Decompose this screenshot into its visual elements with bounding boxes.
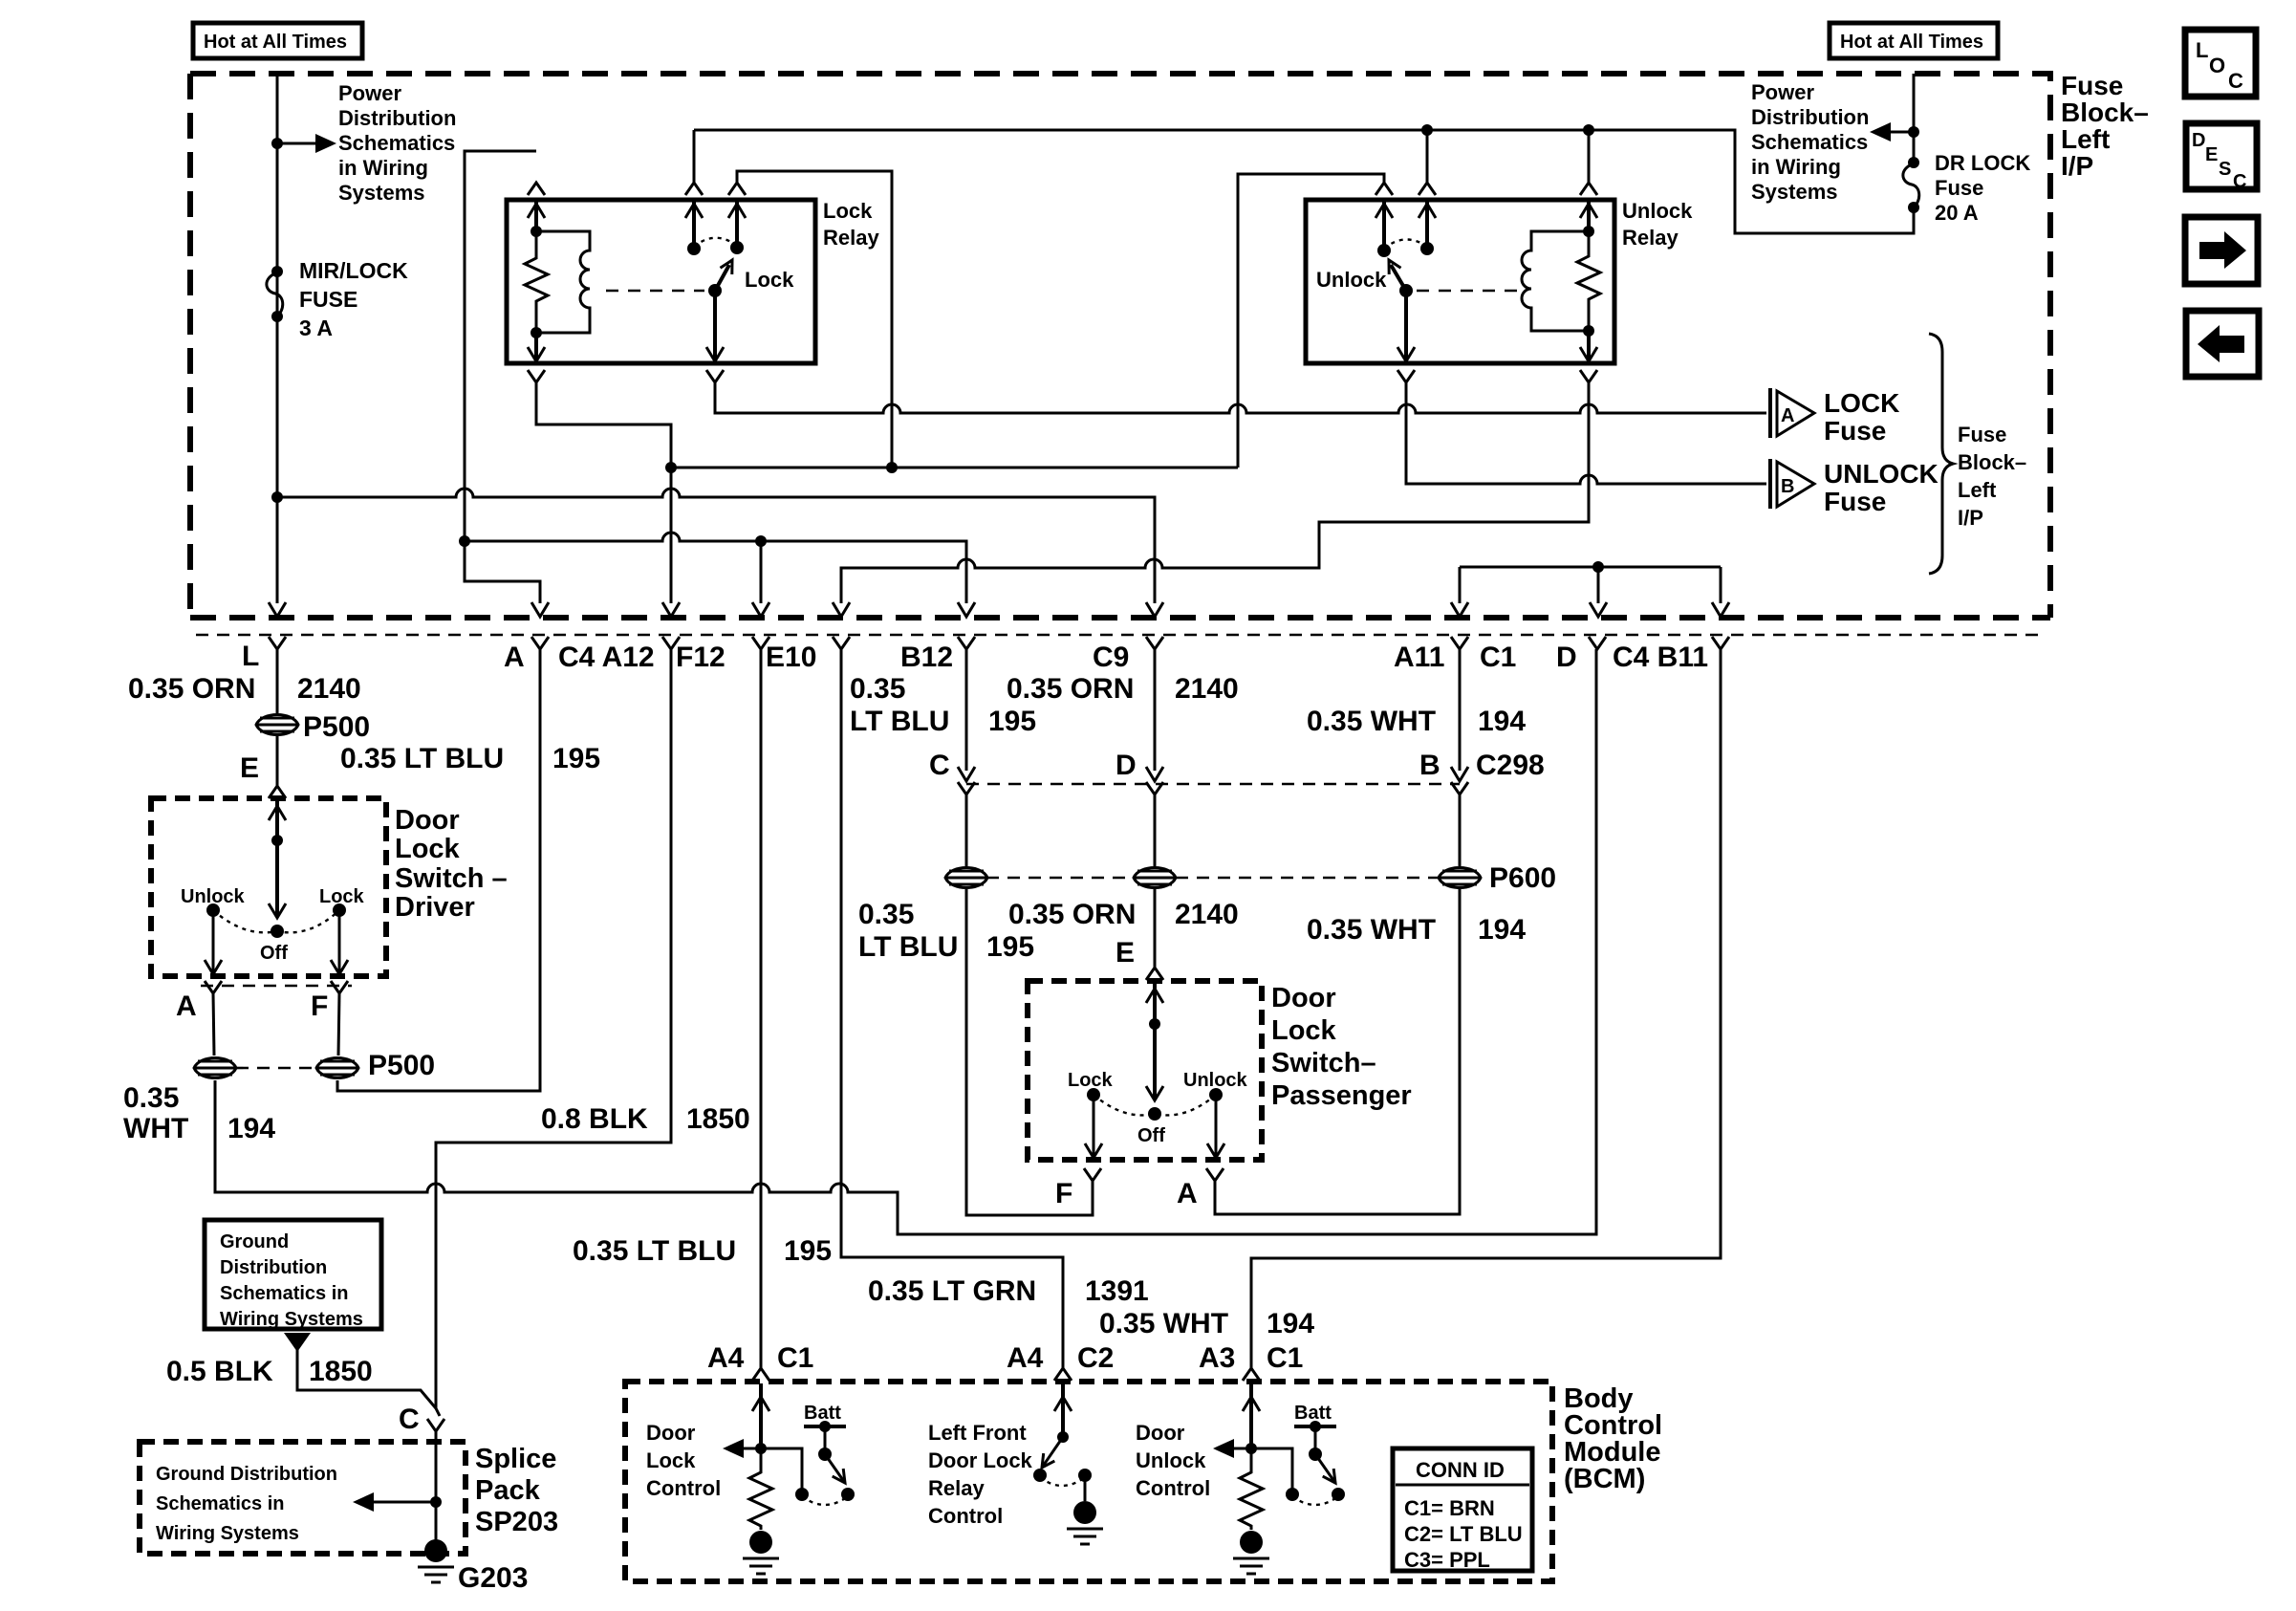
pin A11/C1 fork [1451, 637, 1468, 649]
svg-text:E: E [2205, 144, 2218, 165]
pin fork: driver switch E [269, 786, 286, 798]
switch (relay control) [1057, 1431, 1069, 1443]
wire: 0.5 BLK 1850 to splice [297, 1350, 436, 1408]
svg-text:C1: C1 [1267, 1342, 1303, 1374]
svg-text:Door: Door [395, 805, 460, 836]
svg-text:Wiring Systems: Wiring Systems [220, 1309, 363, 1330]
pin fork: unlock coil top [1580, 183, 1597, 195]
svg-text:G203: G203 [458, 1562, 528, 1594]
pin fork: unlock switch left contact [1375, 183, 1393, 195]
svg-text:Unlock: Unlock [1136, 1448, 1206, 1472]
unlock relay coil output arrow [1587, 331, 1591, 361]
wire: ORN 2140 to passenger switch E [1154, 649, 1157, 771]
wire: P600 to passenger switch E [1154, 889, 1157, 968]
pin C4 B11 fork [1712, 637, 1729, 649]
pin D fork [1589, 637, 1606, 649]
svg-text:Schematics in: Schematics in [156, 1493, 285, 1514]
svg-text:Distribution: Distribution [338, 106, 456, 130]
svg-text:WHT: WHT [123, 1113, 188, 1144]
dotted arc through switch positions (passenger) [1094, 1095, 1216, 1115]
ground (door unlock control) [1233, 1531, 1269, 1574]
pin fork: passenger lock feed (B12/C9 zone) [958, 637, 975, 649]
passenger switch Lock contact [1087, 1088, 1100, 1101]
Batt switch (door unlock control) [1251, 1448, 1292, 1489]
svg-text:Door: Door [1271, 983, 1336, 1013]
svg-text:Schematics: Schematics [1751, 130, 1868, 154]
svg-text:DR LOCK: DR LOCK [1935, 151, 2030, 175]
wire: drop to pin F12 [760, 541, 763, 603]
svg-text:Lock: Lock [823, 199, 873, 223]
wire: P600 to passenger A corner [1215, 889, 1460, 1214]
svg-text:Power: Power [338, 81, 401, 105]
svg-text:C2: C2 [1077, 1342, 1114, 1374]
pin fork: lock relay switch output [706, 370, 724, 382]
unlock relay switch left contact [1382, 200, 1386, 250]
passenger switch Off contact [1148, 1107, 1161, 1121]
svg-text:C3= PPL: C3= PPL [1404, 1548, 1490, 1572]
wire: main feed from Hot at All Times (left), 0.35 ORN [276, 74, 279, 603]
door unlock control (inside BCM) [1249, 1383, 1253, 1448]
connector C298 dashed line [966, 783, 1460, 786]
pin A fork (passenger) [1206, 1168, 1224, 1181]
svg-text:Wiring Systems: Wiring Systems [156, 1523, 299, 1544]
passenger switch common arm [1153, 984, 1157, 1024]
BCM dashed box [625, 1382, 1552, 1581]
svg-text:Left: Left [2061, 124, 2110, 154]
svg-text:S: S [2219, 159, 2231, 180]
svg-text:0.35 LT BLU: 0.35 LT BLU [573, 1235, 736, 1267]
fuse block dashed border [190, 74, 2050, 618]
wire: pin F12 ground 0.8 BLK [436, 649, 671, 1416]
svg-text:195: 195 [988, 706, 1036, 737]
arrow into fuse block bottom border at pin L [269, 602, 286, 617]
svg-text:Off: Off [1137, 1125, 1165, 1146]
pin F fork (passenger) [1084, 1168, 1101, 1181]
junction node on main feed [271, 138, 283, 149]
pin B12 fork [833, 637, 850, 649]
pin A fork [531, 637, 549, 649]
switch arm with arrow (door unlock control) [1315, 1454, 1335, 1483]
svg-text:Hot at All Times: Hot at All Times [1840, 32, 1983, 53]
svg-text:Relay: Relay [823, 226, 879, 250]
DESC box [2186, 123, 2257, 189]
wire: ground net Y0 [671, 467, 1238, 469]
arrow: door lock control [738, 1448, 761, 1450]
coil (unlock relay) [1522, 231, 1589, 331]
wire: ORN 2140 bus Y1 to pin C9 with hops [277, 489, 1155, 603]
svg-text:Left: Left [1958, 478, 1997, 502]
svg-text:0.35 WHT: 0.35 WHT [1307, 914, 1436, 946]
ground G203 [418, 1539, 454, 1582]
svg-text:A: A [1177, 1178, 1198, 1209]
lock relay coil output arrow [534, 333, 538, 361]
svg-text:Unlock: Unlock [181, 886, 246, 907]
svg-text:A3: A3 [1199, 1342, 1235, 1374]
passenger lock output arrow [1093, 1095, 1095, 1158]
svg-text:0.35 ORN: 0.35 ORN [128, 673, 255, 705]
pin fork: lock relay switch left contact [685, 183, 703, 195]
svg-text:3 A: 3 A [299, 316, 333, 340]
driver switch Off contact [271, 925, 284, 938]
svg-text:Switch–: Switch– [1271, 1048, 1376, 1078]
svg-text:C: C [2233, 171, 2246, 192]
pin C9 fork [1146, 637, 1163, 649]
svg-text:I/P: I/P [1958, 506, 1983, 530]
driver switch Lock contact [333, 903, 346, 917]
svg-text:C9: C9 [1093, 642, 1129, 673]
svg-text:0.35 LT GRN: 0.35 LT GRN [868, 1275, 1036, 1307]
svg-text:1391: 1391 [1085, 1275, 1149, 1307]
wire: P500 to driver switch pin E [276, 736, 279, 786]
svg-text:Power: Power [1751, 80, 1814, 104]
wire: unlock coil control to pin E10 (relay control) with hops [841, 382, 1589, 603]
wire: C298 C to P600 [965, 795, 968, 866]
junction node: unlock relay right contact feed [1421, 124, 1433, 136]
lock relay switch right contact [735, 200, 739, 248]
svg-text:A11: A11 [1394, 642, 1444, 673]
LOC box [2185, 30, 2256, 97]
svg-text:B: B [1419, 750, 1440, 781]
resistor (door lock control) [749, 1448, 772, 1530]
wire: DR LOCK fused feed line to relay switch contacts [694, 130, 1914, 233]
svg-text:C: C [399, 1404, 420, 1435]
svg-text:C1= BRN: C1= BRN [1404, 1496, 1495, 1520]
P600 dashed line [986, 877, 1134, 880]
svg-text:CONN ID: CONN ID [1416, 1458, 1505, 1482]
lock relay movable arm [708, 284, 722, 297]
unlock relay movable arm [1399, 284, 1413, 297]
svg-text:P500: P500 [368, 1050, 435, 1081]
resistor (door unlock control) [1240, 1448, 1263, 1530]
svg-text:Off: Off [260, 943, 288, 964]
pin A fork (driver) [205, 981, 222, 993]
svg-text:L: L [242, 641, 259, 672]
svg-text:Fuse: Fuse [2061, 71, 2123, 100]
svg-text:Relay: Relay [1622, 226, 1679, 250]
wire: lock relay coil return to ground pin F12 [536, 382, 671, 603]
svg-text:in Wiring: in Wiring [1751, 155, 1841, 179]
wire: C298 D to P600 [1154, 795, 1157, 866]
inline connector P600 (right) [1439, 868, 1481, 888]
svg-text:in Wiring: in Wiring [338, 156, 428, 180]
Hot at All Times box (right) [1830, 23, 1998, 58]
svg-text:0.35 ORN: 0.35 ORN [1008, 899, 1136, 930]
svg-text:0.35 WHT: 0.35 WHT [1307, 706, 1436, 737]
junction node: unlock relay coil feed [1583, 124, 1594, 136]
wire: unlock relay right contact riser [1426, 130, 1429, 183]
dotted arc through switch positions (driver) [213, 910, 339, 932]
svg-text:Distribution: Distribution [220, 1257, 327, 1278]
svg-text:C: C [2228, 69, 2243, 93]
lock relay coil branch: feed arrow [534, 200, 538, 231]
door lock control driver (inside BCM) [759, 1383, 763, 1448]
svg-text:FUSE: FUSE [299, 287, 357, 312]
svg-text:C298: C298 [1476, 750, 1545, 781]
svg-text:0.35: 0.35 [858, 899, 914, 930]
driver lock output arrow [338, 910, 341, 974]
resistor (unlock relay) [1577, 231, 1600, 331]
svg-text:Switch –: Switch – [395, 863, 508, 894]
svg-text:LT BLU: LT BLU [858, 931, 958, 963]
junction node: pin F12 drop from lock bus [755, 535, 767, 547]
svg-text:C4 A12: C4 A12 [558, 642, 655, 673]
wire: C298 B to P600 [1459, 795, 1462, 866]
splice pack dashed box [140, 1442, 466, 1554]
svg-text:Block–: Block– [2061, 98, 2149, 127]
inline connector P500 pair [194, 1058, 236, 1078]
pin fork: unlock switch right contact [1419, 183, 1436, 195]
coil (lock relay) [536, 231, 590, 333]
svg-text:D: D [1556, 642, 1577, 673]
svg-text:Left Front: Left Front [928, 1421, 1027, 1445]
svg-text:Door: Door [646, 1421, 696, 1445]
svg-text:Distribution: Distribution [1751, 105, 1869, 129]
svg-text:1850: 1850 [309, 1356, 373, 1387]
wire: pin E10 to BCM A4/C1 [760, 649, 763, 1368]
svg-text:0.35 WHT: 0.35 WHT [1099, 1308, 1228, 1339]
svg-text:A: A [176, 991, 197, 1022]
svg-text:D: D [2192, 130, 2205, 151]
svg-text:Lock: Lock [745, 268, 794, 292]
wire: pin L to P500 [276, 649, 279, 713]
passenger switch dashed box [1028, 981, 1262, 1160]
wire: arrow stub to Power Distribution Schematics (left) [277, 142, 321, 145]
svg-text:Unlock: Unlock [1183, 1070, 1248, 1091]
svg-text:Door Lock: Door Lock [928, 1448, 1033, 1472]
svg-text:2140: 2140 [297, 673, 361, 705]
resistor (lock relay) [525, 231, 548, 333]
svg-text:Lock: Lock [395, 834, 461, 864]
svg-text:Control: Control [646, 1476, 721, 1500]
svg-text:Ground: Ground [220, 1231, 289, 1252]
svg-text:O: O [2209, 54, 2225, 77]
wire: P600 to passenger F corner [966, 889, 1093, 1215]
svg-text:195: 195 [552, 743, 600, 774]
arrow: door unlock control [1228, 1448, 1251, 1450]
svg-text:Lock: Lock [646, 1448, 696, 1472]
svg-text:0.5 BLK: 0.5 BLK [166, 1356, 273, 1387]
fuse: DR LOCK Fuse 20 A [1908, 157, 1919, 168]
pin fork: passenger switch E [1146, 968, 1163, 980]
junction node: ORN bus tap [271, 491, 283, 503]
fuse block bottom connector dashed line [196, 634, 2046, 637]
arrow from ground distribution box [284, 1333, 311, 1352]
svg-text:E: E [1116, 937, 1135, 969]
ground (door lock control) [743, 1531, 779, 1574]
wire: lock relay coil feed riser (to pin A C4 A12) [465, 151, 540, 603]
pin fork: unlock coil bottom [1580, 370, 1597, 382]
driver unlock output arrow [212, 910, 215, 974]
svg-text:F12: F12 [676, 642, 726, 673]
pin fork: lock relay switch right contact [728, 183, 746, 195]
pin fork: unlock switch output [1397, 370, 1415, 382]
svg-text:0.8 BLK: 0.8 BLK [541, 1103, 648, 1135]
passenger switch Unlock contact [1209, 1088, 1223, 1101]
left front door lock relay control (inside BCM) [1061, 1383, 1065, 1434]
svg-text:0.35 LT BLU: 0.35 LT BLU [340, 743, 504, 774]
wire: unlock relay coil riser [1588, 130, 1591, 183]
wire: riser to lock relay left contact [693, 130, 696, 183]
svg-text:A4: A4 [707, 1342, 745, 1374]
lock relay switch output arrow [713, 291, 717, 361]
svg-text:Fuse: Fuse [1958, 423, 2006, 446]
svg-text:L: L [2196, 38, 2208, 62]
svg-text:20 A: 20 A [1935, 201, 1979, 225]
wire: unlock relay left contact feed from ground net [1238, 174, 1384, 468]
svg-text:Schematics: Schematics [338, 131, 455, 155]
unlock relay box [1306, 200, 1614, 363]
driver switch common arm [275, 801, 279, 840]
svg-text:A: A [1781, 405, 1794, 426]
svg-text:Control: Control [1136, 1476, 1210, 1500]
svg-text:B: B [1781, 476, 1794, 497]
svg-text:Lock: Lock [319, 886, 365, 907]
pin L fork [269, 637, 286, 649]
driver switch bottom connector dashed line [201, 985, 352, 988]
svg-text:Fuse: Fuse [1824, 416, 1886, 446]
svg-text:Driver: Driver [395, 892, 475, 923]
wire: driver lock output to fuse block pin A (LT BLU 195) [337, 649, 540, 1091]
inline connector P600 (left) [945, 868, 987, 888]
svg-text:195: 195 [986, 931, 1034, 963]
pin fork: lock relay coil bottom [528, 370, 545, 382]
fuse: MIR/LOCK FUSE 3A [271, 266, 283, 277]
pin F fork (driver) [331, 981, 348, 993]
forward arrow box [2185, 217, 2258, 284]
svg-text:Passenger: Passenger [1271, 1080, 1412, 1111]
driver switch dashed box [151, 798, 386, 976]
svg-text:B12: B12 [900, 642, 953, 673]
wire: unlock signal tie bar above pins A11/C1, D, C4 B11 [1460, 566, 1721, 569]
wire: unlock relay output to UNLOCK fuse (B) with hop [1406, 382, 1766, 484]
svg-text:194: 194 [1267, 1308, 1314, 1339]
svg-text:A: A [504, 642, 525, 673]
svg-text:(BCM): (BCM) [1564, 1464, 1645, 1494]
pin F12 fork [662, 637, 680, 649]
dashed link coil to switch (unlock relay) [1417, 290, 1518, 293]
svg-text:194: 194 [1478, 706, 1526, 737]
unlock relay switch right contact [1425, 200, 1429, 249]
svg-text:Splice: Splice [475, 1444, 556, 1474]
svg-text:C2= LT BLU: C2= LT BLU [1404, 1522, 1523, 1546]
inline connector P500 (feed) [256, 715, 298, 735]
svg-text:Relay: Relay [928, 1476, 985, 1500]
svg-text:194: 194 [1478, 914, 1526, 946]
junction node: ground net Y0 at coil return [665, 462, 677, 473]
svg-text:LT BLU: LT BLU [850, 706, 949, 737]
svg-text:Unlock: Unlock [1316, 268, 1387, 292]
svg-text:Fuse: Fuse [1824, 487, 1886, 516]
svg-text:Systems: Systems [338, 181, 425, 205]
wire: pin B12 relay control to BCM A4/C2 [841, 649, 1063, 1368]
svg-text:C: C [929, 750, 950, 781]
svg-text:A4: A4 [1007, 1342, 1044, 1374]
wire: driver F to P500 [338, 993, 339, 1056]
svg-text:E: E [240, 752, 259, 784]
wire: pin C4 B11 to BCM A3/C1 (Door Unlock Control) [1251, 649, 1721, 1368]
svg-text:Batt: Batt [1294, 1403, 1332, 1424]
passenger unlock output arrow [1215, 1095, 1218, 1158]
arrow to Power Distribution Schematics (right) [1885, 131, 1914, 134]
switch arm with arrow (door lock control) [825, 1454, 845, 1483]
pin E10 fork [752, 637, 769, 649]
svg-text:Control: Control [928, 1504, 1003, 1528]
ground (relay control) [1084, 1475, 1087, 1501]
svg-text:C1: C1 [777, 1342, 813, 1374]
wire: splice to ground [435, 1431, 438, 1541]
junction node: lock right contact on Y0 [886, 462, 898, 473]
wire: driver A to P500 [213, 993, 214, 1056]
junction node in splice pack [430, 1496, 442, 1508]
svg-text:Block–: Block– [1958, 450, 2026, 474]
arrow to ground distribution schematics [368, 1501, 436, 1504]
wire: lock command bus Y2 [465, 533, 966, 603]
svg-text:1850: 1850 [686, 1103, 750, 1135]
svg-text:Fuse: Fuse [1935, 176, 1983, 200]
brace: fuse block left I/P [1929, 334, 1953, 574]
wire: lock relay output to LOCK fuse (A) with hops [715, 382, 1766, 413]
svg-text:P500: P500 [303, 711, 370, 743]
dotted arc between unlock relay contacts [1384, 239, 1427, 249]
svg-text:F: F [311, 991, 328, 1022]
lock relay box [507, 200, 815, 363]
svg-text:Systems: Systems [1751, 180, 1838, 204]
unlock relay switch output arrow [1404, 291, 1408, 361]
junction node: lock command bus tap [459, 535, 470, 547]
dashed link coil to switch (lock relay) [606, 290, 704, 293]
ground distribution box [205, 1220, 381, 1329]
svg-text:Lock: Lock [1068, 1070, 1114, 1091]
svg-text:0.35 ORN: 0.35 ORN [1007, 673, 1134, 705]
svg-text:Lock: Lock [1271, 1015, 1337, 1046]
svg-text:F: F [1055, 1178, 1072, 1209]
svg-text:194: 194 [227, 1113, 275, 1144]
svg-text:0.35: 0.35 [850, 673, 905, 705]
wire: pin C9 (lock bus) to C298 pin C [965, 649, 968, 771]
wire: lock relay right contact to ground-net drop [737, 171, 892, 468]
connector B: UNLOCK Fuse [1768, 459, 1772, 509]
svg-text:Batt: Batt [804, 1403, 841, 1424]
CONN ID table [1393, 1448, 1532, 1571]
dotted arc between lock relay contacts [694, 238, 737, 247]
svg-text:MIR/LOCK: MIR/LOCK [299, 258, 408, 283]
svg-text:UNLOCK: UNLOCK [1824, 459, 1939, 489]
svg-text:Door: Door [1136, 1421, 1185, 1445]
svg-text:LOCK: LOCK [1824, 388, 1899, 418]
svg-text:2140: 2140 [1175, 899, 1239, 930]
svg-text:C4 B11: C4 B11 [1613, 642, 1708, 673]
unlock relay coil feed arrow [1587, 200, 1591, 231]
inline connector P600 (middle) [1134, 868, 1176, 888]
svg-text:Unlock: Unlock [1622, 199, 1693, 223]
wire: pin A11/C1 (unlock) to C298 pin B [1459, 649, 1462, 771]
svg-text:Schematics in: Schematics in [220, 1283, 349, 1304]
svg-text:SP203: SP203 [475, 1507, 558, 1537]
pin fork: lock relay coil top [528, 183, 545, 195]
wire: WHT 194 bus from driver unlock output to pin D (with hops) [215, 649, 1596, 1234]
driver switch Unlock contact [206, 903, 220, 917]
svg-text:2140: 2140 [1175, 673, 1239, 705]
Batt switch (door lock control) [761, 1448, 802, 1489]
svg-text:Hot at All Times: Hot at All Times [204, 32, 347, 53]
svg-text:C1: C1 [1480, 642, 1516, 673]
svg-text:D: D [1116, 750, 1137, 781]
connector A: LOCK Fuse [1768, 388, 1772, 438]
svg-text:P600: P600 [1489, 862, 1556, 894]
lock relay switch left contact [692, 200, 696, 249]
Hot at All Times box (left) [193, 23, 362, 58]
wire: DR LOCK feed from Hot at All Times [1913, 74, 1916, 163]
